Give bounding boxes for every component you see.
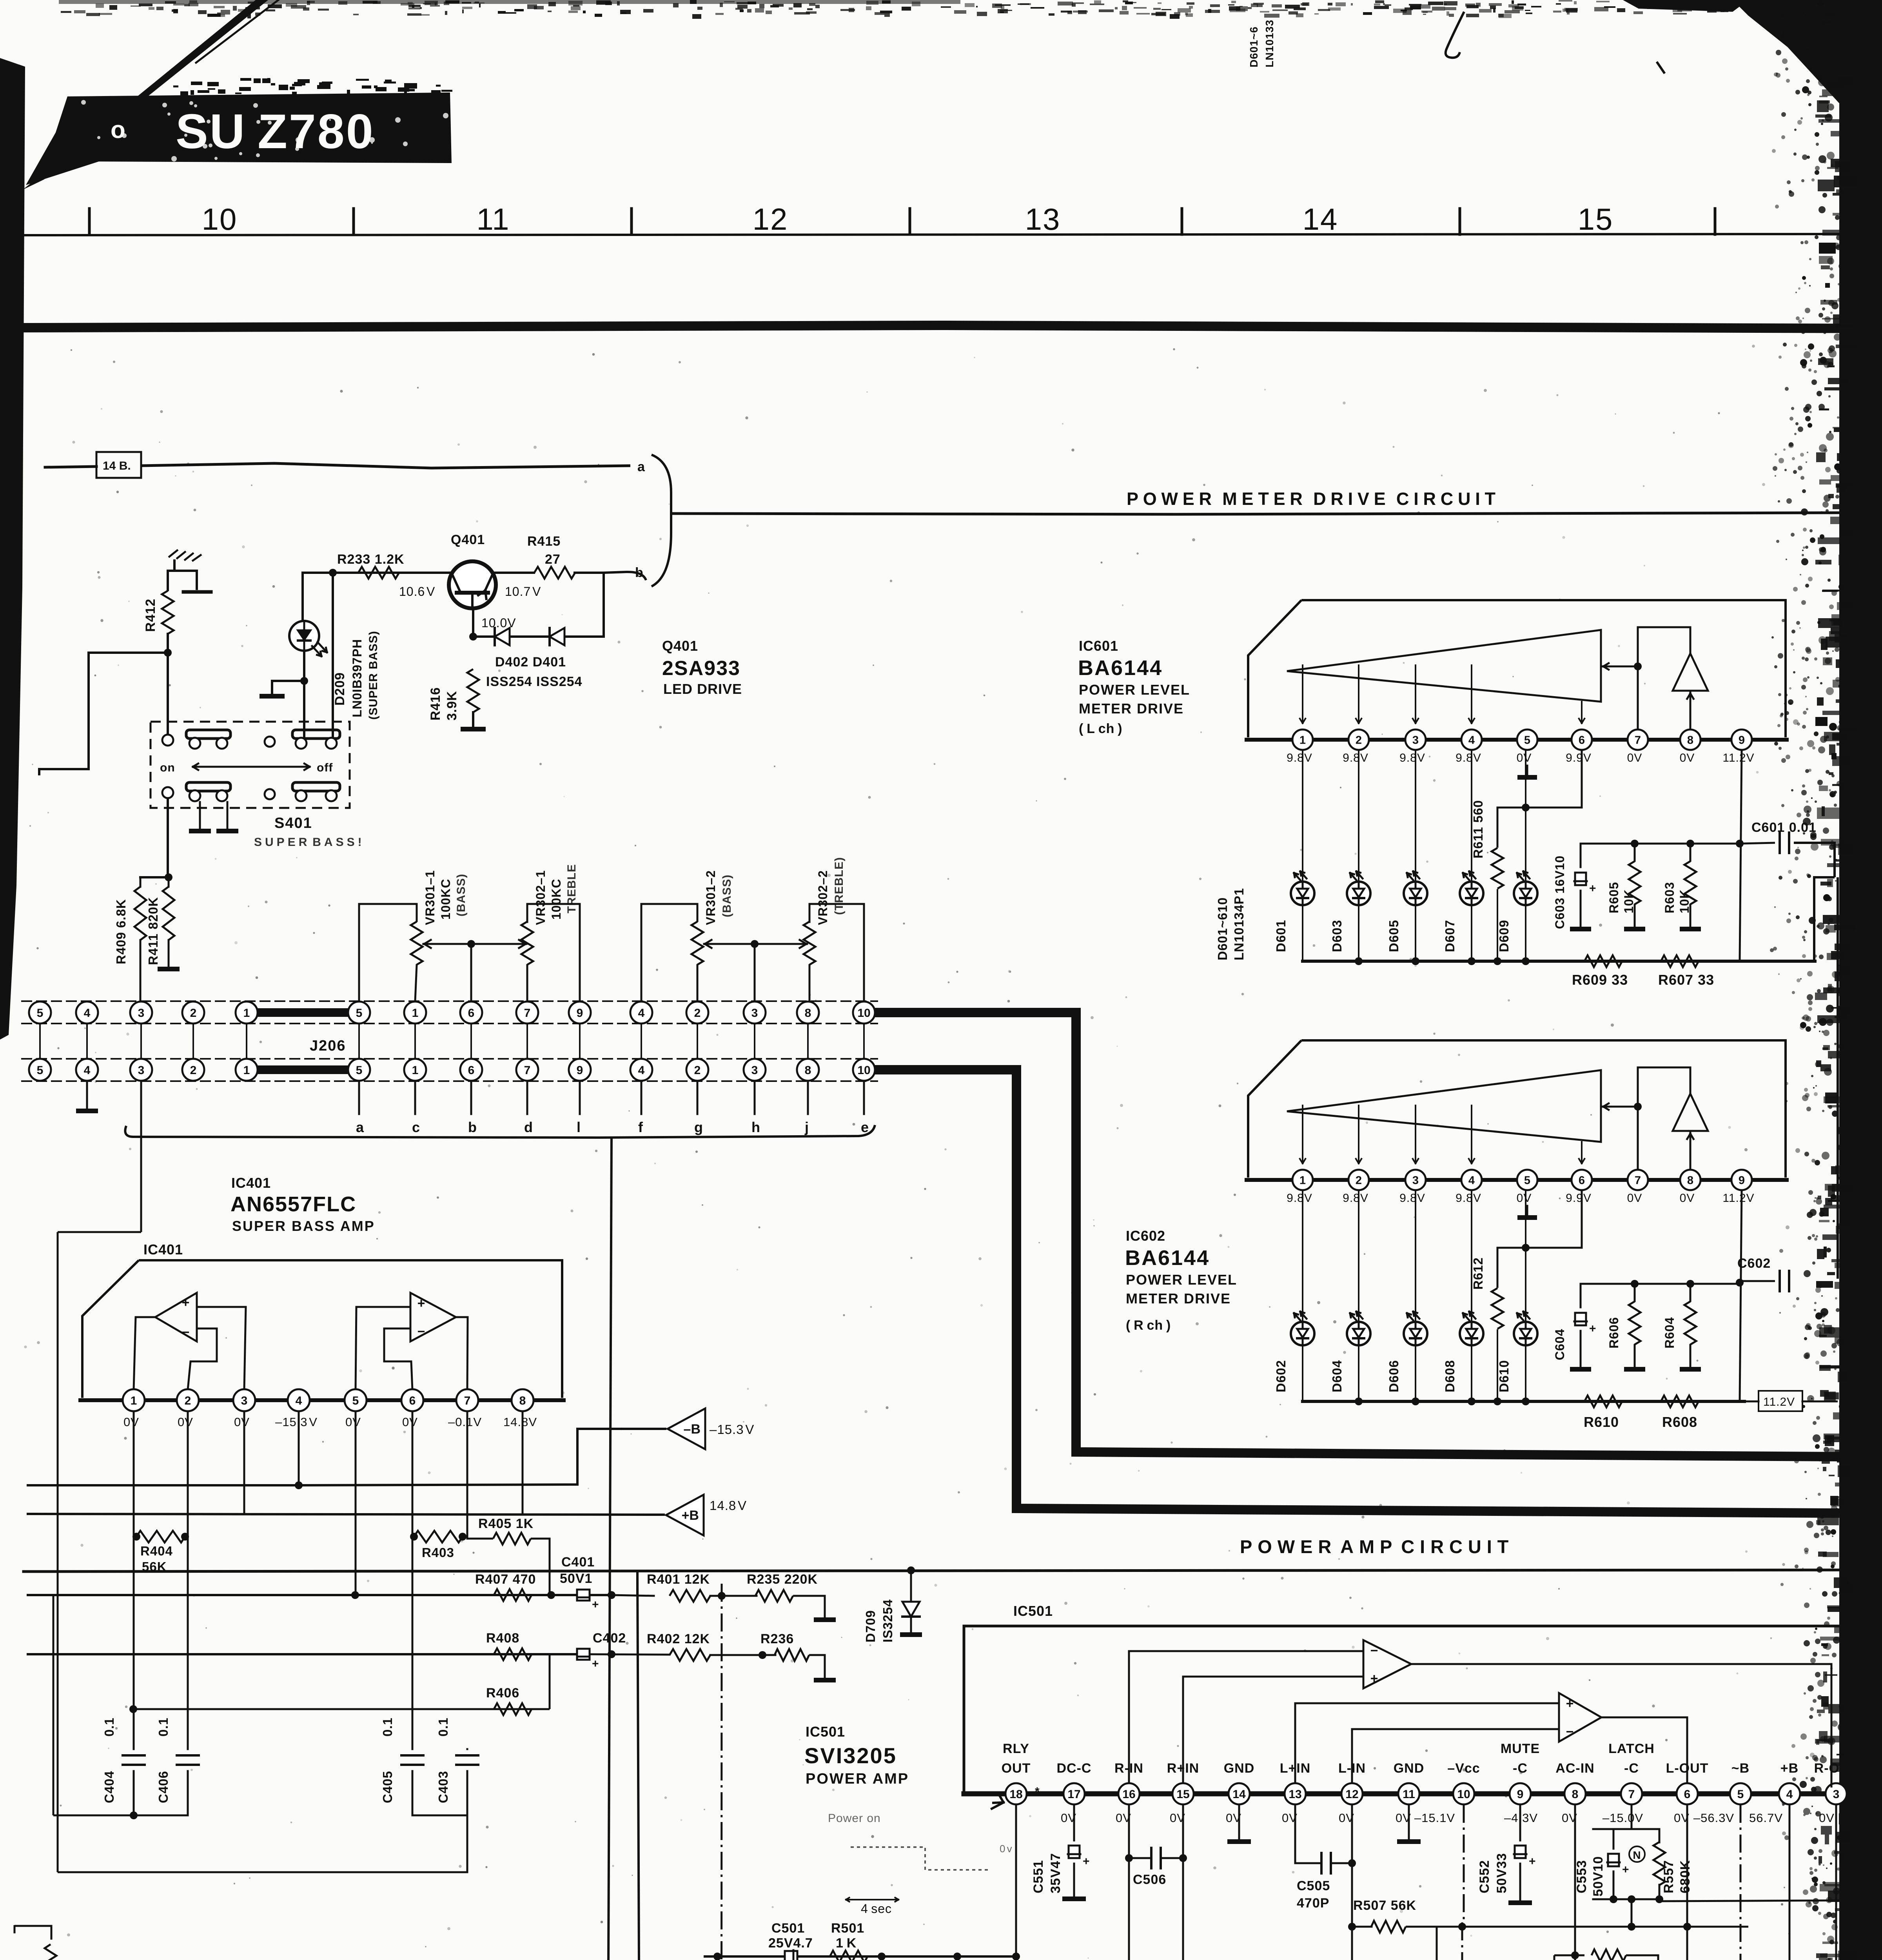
- svg-text:D605: D605: [1387, 920, 1401, 952]
- op-amp IC401-B: [410, 1293, 456, 1341]
- svg-text:b: b: [468, 1119, 477, 1135]
- svg-text:10: 10: [1457, 1788, 1470, 1801]
- svg-text:–56.3V: –56.3V: [1693, 1811, 1734, 1825]
- junction R404 ends: [132, 1533, 189, 1541]
- comparator wedge IC602: [1287, 1070, 1601, 1142]
- svg-text:METER DRIVE: METER DRIVE: [1126, 1290, 1231, 1307]
- switch S401 outline (dashed): [151, 722, 350, 808]
- wire wiper2 to pin3: [754, 944, 756, 1001]
- svg-text:-C: -C: [1513, 1761, 1528, 1776]
- wire R233 to Q401 base: [396, 572, 449, 574]
- svg-text:R611 560: R611 560: [1471, 800, 1485, 858]
- svg-text:9.8V: 9.8V: [1287, 751, 1312, 764]
- wire D608 column: [1471, 1191, 1472, 1401]
- svg-text:D601: D601: [1274, 920, 1288, 952]
- resistor R416 3.9K: [428, 669, 479, 720]
- wires J206 column links: [40, 1024, 864, 1059]
- svg-text:+: +: [1589, 1322, 1597, 1335]
- svg-text:50V1: 50V1: [560, 1571, 592, 1586]
- junction Y1 Q205: [0, 0, 0, 0]
- wires J206 letter stubs: [359, 1081, 864, 1114]
- label block IC602: [1125, 1228, 1237, 1333]
- svg-text:5: 5: [37, 1064, 44, 1077]
- svg-text:1: 1: [1299, 734, 1306, 746]
- resistor R606: [1607, 1284, 1641, 1367]
- ground under R606: [1624, 1367, 1645, 1372]
- S401 pole circle r2L: [162, 787, 173, 798]
- led D606: [1404, 1312, 1427, 1345]
- svg-text:a: a: [637, 459, 645, 474]
- svg-text:R406: R406: [486, 1686, 519, 1700]
- diode D401 ISS254: [550, 628, 564, 645]
- svg-text:VR301–2: VR301–2: [704, 870, 718, 925]
- svg-text:+: +: [592, 1657, 599, 1670]
- wire R233-node to S401: [332, 573, 334, 737]
- wire D601 column: [1302, 751, 1303, 961]
- wire D209 bottom: [303, 651, 305, 681]
- svg-text:C401: C401: [561, 1555, 595, 1570]
- wire D401 up to b: [603, 573, 605, 637]
- svg-text:9.8V: 9.8V: [1343, 751, 1368, 764]
- resistor R605 10K: [1607, 844, 1641, 927]
- led D608: [1460, 1312, 1483, 1345]
- capacitor C403 0.1: [436, 1717, 478, 1815]
- svg-text:9.8V: 9.8V: [1287, 1192, 1312, 1205]
- label block Q401 2SA933 LED DRIVE: [662, 638, 742, 697]
- wire VR301-1 wiper row: [423, 940, 526, 948]
- svg-text:IC601: IC601: [1079, 638, 1118, 654]
- resistor R415 27: [527, 534, 575, 579]
- wire IC401-B plus input: [356, 1307, 410, 1390]
- capacitor C501 25V4.7: [768, 1921, 813, 1960]
- svg-text:8: 8: [519, 1394, 526, 1407]
- svg-text:6: 6: [409, 1394, 416, 1407]
- svg-text:IC501: IC501: [806, 1724, 845, 1740]
- svg-text:9: 9: [577, 1007, 583, 1020]
- wire -B dash-dot column: [1740, 1805, 1742, 1960]
- wire D602 column: [1302, 1191, 1303, 1401]
- wire D605 column: [1415, 751, 1416, 961]
- svg-text:0V: 0V: [1517, 751, 1532, 764]
- S401 contact pair r1b: [292, 730, 340, 749]
- ic IC501 pin labels: [1002, 1741, 1858, 1776]
- ground under J206 pin4: [76, 1109, 98, 1113]
- logo SU-Z780: [26, 78, 452, 185]
- svg-text:8: 8: [805, 1007, 811, 1020]
- svg-text:a: a: [356, 1119, 364, 1135]
- svg-text:0.1: 0.1: [102, 1717, 116, 1737]
- label SUPER BASS: [254, 836, 362, 849]
- wire IC501-B output: [1601, 1717, 1687, 1784]
- scan fold diagonal: [23, 0, 268, 190]
- svg-text:0V: 0V: [1627, 751, 1642, 764]
- wire C601 row: [1581, 840, 1775, 848]
- svg-text:d: d: [524, 1119, 533, 1135]
- svg-text:( R ch ): ( R ch ): [1126, 1318, 1171, 1333]
- svg-text:LN0IB397PH: LN0IB397PH: [350, 639, 364, 717]
- svg-text:1: 1: [243, 1064, 250, 1077]
- wire pin6 drop: [412, 1411, 414, 1748]
- svg-text:6: 6: [1684, 1788, 1691, 1801]
- svg-text:0.1: 0.1: [156, 1717, 171, 1737]
- svg-text:2: 2: [694, 1064, 701, 1077]
- svg-text:R404: R404: [140, 1544, 173, 1558]
- wire pin6 to R611/D609 row: [1497, 751, 1582, 811]
- wire D604 column: [1358, 1191, 1359, 1401]
- resistor R411 820K: [146, 877, 174, 965]
- wire wedge feedback IC601: [1601, 662, 1642, 670]
- junction H4-V1: [608, 1650, 615, 1658]
- wire pin10 dash-dot column: [1462, 1805, 1464, 1960]
- wire R412 bottom: [167, 634, 169, 653]
- wire pin7 column IC601: [1637, 627, 1639, 729]
- wire VR301-2 wiper row: [704, 940, 807, 948]
- wire +B feed row H2: [27, 1514, 665, 1515]
- ground under R604: [1680, 1367, 1701, 1372]
- svg-text:9.8V: 9.8V: [1399, 751, 1425, 764]
- diode D709 ISS254: [902, 1570, 920, 1632]
- label D209 (rotated): [332, 631, 380, 720]
- junction Y2 Q206: [0, 0, 0, 0]
- svg-text:h: h: [751, 1119, 760, 1135]
- ground below R235: [814, 1617, 836, 1622]
- svg-text:–6: –6: [1847, 1811, 1861, 1825]
- svg-text:−: −: [1370, 1643, 1379, 1658]
- stub hatches above R412: [169, 550, 201, 571]
- svg-text:0V: 0V: [1680, 751, 1695, 764]
- capacitor C602: [1737, 1256, 1789, 1291]
- svg-text:IS3254: IS3254: [880, 1599, 895, 1642]
- svg-text:5: 5: [1737, 1788, 1744, 1801]
- svg-text:11.2V: 11.2V: [1722, 1192, 1754, 1205]
- led D604: [1347, 1312, 1370, 1345]
- connector J206 dashed strips: [22, 1001, 877, 1081]
- svg-text:METER DRIVE: METER DRIVE: [1079, 701, 1184, 717]
- svg-text:4: 4: [1468, 734, 1475, 746]
- wire pin12 column: [1351, 1805, 1353, 1960]
- op-amp IC401-A: [155, 1293, 197, 1341]
- wire pin6 to R612/D610 row: [1497, 1191, 1582, 1252]
- led D607: [1460, 871, 1483, 905]
- wire R411 to ground: [168, 940, 170, 967]
- svg-text:C404: C404: [102, 1771, 116, 1803]
- label IC401 above box: [143, 1241, 183, 1258]
- svg-text:3: 3: [1412, 734, 1419, 746]
- resistor R403: [414, 1531, 463, 1560]
- net -B -15.3V (arrow): [668, 1408, 754, 1449]
- svg-text:LED DRIVE: LED DRIVE: [663, 681, 742, 697]
- wire IC501-A plus input: [1183, 1677, 1363, 1784]
- label 10.6V: [399, 584, 435, 599]
- resistor R401 12K: [612, 1572, 710, 1602]
- junction R412 bottom: [164, 649, 172, 657]
- label D606: [1387, 1360, 1401, 1392]
- svg-text:9: 9: [1739, 1174, 1745, 1187]
- led D602: [1291, 1312, 1314, 1345]
- potentiometer VR301-2 BASS: [691, 870, 733, 965]
- svg-text:R412: R412: [143, 599, 158, 632]
- wire pin1 drop: [133, 1411, 135, 1709]
- resistor R607 33: [1658, 955, 1714, 988]
- title POWER METER DRIVE CIRCUIT: [1127, 489, 1497, 509]
- svg-text:10K: 10K: [1677, 889, 1691, 913]
- wire IC401-A minus S-bend: [188, 1328, 217, 1390]
- junction LED row: [1355, 957, 1530, 965]
- wire pin3 drop: [243, 1411, 245, 1514]
- wire D606 column: [1415, 1191, 1416, 1401]
- label S401: [274, 815, 312, 831]
- wire pin7 column IC602: [1637, 1067, 1639, 1169]
- svg-text:4: 4: [84, 1064, 91, 1077]
- svg-text:R501: R501: [831, 1921, 864, 1936]
- label IC401 block: [230, 1175, 375, 1234]
- svg-text:R235 220K: R235 220K: [747, 1572, 818, 1587]
- resistor R610: [1584, 1396, 1622, 1430]
- wire IC501-B plus input: [1295, 1703, 1559, 1784]
- svg-text:R604: R604: [1662, 1317, 1677, 1349]
- svg-text:+: +: [1622, 1863, 1630, 1876]
- svg-text:-C: -C: [1624, 1761, 1639, 1776]
- svg-text:5: 5: [1524, 734, 1530, 746]
- svg-text:SU Z780: SU Z780: [176, 105, 375, 159]
- svg-text:D402 D401: D402 D401: [495, 655, 566, 670]
- wire buffer to pin8 IC602: [1687, 1131, 1693, 1169]
- svg-text:470P: 470P: [1297, 1896, 1329, 1911]
- resistor R503 56K: [929, 1956, 963, 1960]
- svg-text:POWER LEVEL: POWER LEVEL: [1126, 1272, 1237, 1288]
- label D602: [1274, 1360, 1288, 1392]
- S401 contact pair r1a: [186, 730, 230, 749]
- resistor R501 1K: [830, 1921, 867, 1960]
- wire C553/R557 bottom row: [1593, 1895, 1663, 1927]
- ic IC501 outline: [964, 1626, 1842, 1794]
- svg-text:−: −: [1566, 1724, 1574, 1739]
- svg-text:10K: 10K: [1622, 889, 1636, 913]
- wire pin2 drop: [187, 1411, 189, 1748]
- wire pin9 column IC602: [1740, 1191, 1742, 1401]
- resistor R556 680K: [1554, 1949, 1667, 1960]
- svg-text:9.8V: 9.8V: [1343, 1192, 1368, 1205]
- led D609: [1514, 871, 1537, 905]
- ic IC602 outline: [1248, 1040, 1786, 1178]
- junction D709 top: [907, 1566, 915, 1574]
- svg-text:50V33: 50V33: [1494, 1853, 1509, 1893]
- svg-text:C406: C406: [156, 1771, 171, 1803]
- svg-text:4: 4: [1786, 1788, 1793, 1801]
- wire R507 row extension: [1462, 1923, 1748, 1931]
- svg-text:15: 15: [1578, 202, 1613, 236]
- wire Q401 emitter down: [472, 608, 474, 637]
- svg-text:25V4.7: 25V4.7: [768, 1936, 813, 1951]
- led D209: [289, 621, 327, 656]
- svg-text:~B: ~B: [1731, 1761, 1750, 1776]
- svg-text:o: o: [111, 116, 126, 143]
- svg-text:7: 7: [1635, 1174, 1641, 1187]
- svg-text:R411 820K: R411 820K: [146, 897, 160, 965]
- svg-text:4 sec: 4 sec: [861, 1902, 892, 1916]
- wire VR302-2 bottom to pin8: [809, 965, 811, 1001]
- wire pin9 column IC601: [1740, 751, 1742, 961]
- svg-text:(BASS): (BASS): [455, 874, 468, 916]
- svg-text:C506: C506: [1133, 1872, 1166, 1887]
- S401 center circle r1: [265, 737, 275, 747]
- scan paper speckle: [24, 345, 1800, 1960]
- svg-text:−: −: [417, 1324, 426, 1339]
- label Q401 (symbol): [451, 532, 485, 547]
- note 4sec: [846, 1898, 898, 1916]
- label D601: [1274, 920, 1288, 952]
- svg-text:3: 3: [138, 1064, 145, 1077]
- svg-text:14.8V: 14.8V: [503, 1415, 537, 1429]
- S401 contact pair r2b: [292, 782, 340, 801]
- svg-text:SVI3205: SVI3205: [804, 1743, 897, 1768]
- svg-text:LN10133: LN10133: [1263, 20, 1276, 67]
- svg-text:6: 6: [1579, 1174, 1585, 1187]
- svg-text:8: 8: [1687, 734, 1693, 746]
- svg-text:R405 1K: R405 1K: [478, 1516, 534, 1531]
- svg-text:+: +: [417, 1296, 426, 1311]
- wire IC501-A output: [1411, 1664, 1831, 1788]
- svg-text:11: 11: [477, 202, 510, 236]
- svg-text:D601~610: D601~610: [1215, 897, 1230, 960]
- svg-text:1 K: 1 K: [836, 1936, 857, 1951]
- wire VR301-1 bridge: [359, 904, 417, 1001]
- svg-text:+: +: [182, 1295, 190, 1310]
- wire IC401-B output: [456, 1317, 468, 1390]
- wire C403 drop: [466, 1815, 468, 1872]
- svg-text:6: 6: [1579, 734, 1585, 746]
- svg-text:R603: R603: [1662, 882, 1677, 914]
- svg-text:4: 4: [1468, 1174, 1475, 1187]
- svg-text:3: 3: [1833, 1788, 1840, 1801]
- wire R415 to b: [575, 572, 604, 574]
- wire VR302-1 bottom to pin7: [526, 965, 528, 1001]
- svg-text:C602: C602: [1737, 1256, 1771, 1271]
- svg-text:9.8V: 9.8V: [1456, 1192, 1481, 1205]
- svg-text:13: 13: [1289, 1788, 1301, 1801]
- wire pin11 ground: [1408, 1805, 1410, 1839]
- net label box 14B: [96, 452, 141, 478]
- capacitor C509 10P: [1348, 1927, 1437, 1960]
- svg-text:1: 1: [1299, 1174, 1306, 1187]
- svg-text:0V: 0V: [1627, 1192, 1642, 1205]
- svg-text:+: +: [1589, 882, 1597, 895]
- wire pin5 ground IC601: [1526, 766, 1528, 776]
- label D709 ISS254: [863, 1599, 895, 1642]
- svg-text:0V: 0V: [234, 1415, 250, 1429]
- wire R412-node to S401: [167, 653, 169, 737]
- comparator wedge IC601: [1287, 630, 1601, 702]
- svg-text:56.7V: 56.7V: [1749, 1811, 1783, 1825]
- wire buffer to pin8 IC601: [1687, 691, 1693, 729]
- svg-text:R402 12K: R402 12K: [647, 1632, 710, 1646]
- svg-text:POWER AMP: POWER AMP: [806, 1771, 909, 1787]
- svg-text:S401: S401: [274, 815, 312, 831]
- label D608: [1443, 1360, 1457, 1392]
- svg-text:0V: 0V: [1680, 1192, 1695, 1205]
- wire IC401-A plus input: [197, 1307, 246, 1390]
- resistor R604: [1662, 1284, 1696, 1367]
- svg-text:DC-C: DC-C: [1057, 1761, 1092, 1776]
- junction R233 left: [329, 569, 337, 577]
- wire Y1 left end: [705, 1955, 719, 1958]
- capacitor C405 0.1: [380, 1717, 423, 1815]
- svg-text:OUT: OUT: [1002, 1761, 1031, 1776]
- wire pin5 ground IC602: [1526, 1206, 1528, 1216]
- wire J206 pin4 ground stub: [86, 1081, 88, 1109]
- ground under C551: [1062, 1896, 1086, 1901]
- resistor R235 220K: [710, 1572, 818, 1602]
- svg-text:27: 27: [545, 552, 561, 567]
- svg-text:MUTE: MUTE: [1501, 1741, 1540, 1756]
- wire net-a to brace: [141, 463, 630, 468]
- svg-text:–15.0V: –15.0V: [1603, 1811, 1643, 1825]
- svg-text:0.1: 0.1: [380, 1717, 395, 1737]
- svg-text:R407 470: R407 470: [475, 1572, 536, 1587]
- svg-text:f: f: [638, 1119, 643, 1135]
- label D605: [1387, 920, 1401, 952]
- wire C405/C403 bottom row: [412, 1815, 467, 1817]
- svg-text:16: 16: [1122, 1788, 1135, 1801]
- svg-text:TREBLE: TREBLE: [565, 864, 578, 913]
- label top-right part numbers: [1248, 20, 1276, 67]
- svg-text:R608: R608: [1662, 1414, 1697, 1430]
- wire L-OUT column: [1686, 1805, 1688, 1960]
- ground under R605: [1624, 927, 1645, 931]
- ic IC401 pin voltages: [123, 1415, 537, 1429]
- svg-text:4: 4: [84, 1007, 91, 1020]
- svg-text:*: *: [1035, 1785, 1040, 1798]
- svg-text:0V: 0V: [123, 1415, 139, 1429]
- svg-text:g: g: [694, 1119, 703, 1135]
- junction LED row 2: [1355, 1397, 1530, 1405]
- svg-text:C403: C403: [436, 1771, 450, 1803]
- svg-text:D607: D607: [1443, 920, 1457, 952]
- capacitor C404 0.1: [102, 1709, 145, 1815]
- svg-text:9: 9: [577, 1064, 583, 1077]
- led D603: [1347, 871, 1370, 905]
- svg-text:ISS254 ISS254: ISS254 ISS254: [486, 674, 583, 689]
- wire H5 row (R406): [133, 1655, 550, 1709]
- junction H1 pin4: [295, 1481, 303, 1489]
- wire Q205 drain up: [713, 1953, 721, 1960]
- ground pin5 IC602: [1517, 1215, 1537, 1220]
- wire D609 column: [1525, 751, 1526, 961]
- svg-text:10: 10: [857, 1064, 870, 1077]
- svg-text:+: +: [1566, 1696, 1574, 1711]
- svg-text:–15.3 V: –15.3 V: [275, 1415, 318, 1429]
- svg-text:9: 9: [1739, 734, 1745, 746]
- svg-text:R408: R408: [486, 1631, 519, 1646]
- ground under R603: [1680, 927, 1701, 931]
- label 10.0V: [481, 616, 516, 630]
- svg-text:R409 6.8K: R409 6.8K: [114, 899, 128, 964]
- capacitor C552 50V33: [1477, 1805, 1536, 1900]
- svg-text:R612: R612: [1471, 1257, 1485, 1290]
- svg-text:1: 1: [412, 1064, 419, 1077]
- svg-text:R606: R606: [1607, 1317, 1621, 1349]
- resistor R236: [760, 1632, 809, 1661]
- svg-text:C405: C405: [380, 1771, 395, 1803]
- svg-text:14.8 V: 14.8 V: [710, 1498, 747, 1513]
- svg-text:3: 3: [241, 1394, 248, 1407]
- wire pin4 drop: [298, 1411, 300, 1485]
- capacitor C505 470P: [1295, 1853, 1356, 1911]
- svg-text:BA6144: BA6144: [1125, 1246, 1210, 1270]
- svg-text:b: b: [635, 565, 644, 580]
- wire net-a horizontal: [45, 466, 96, 467]
- ground under C552: [1508, 1900, 1532, 1905]
